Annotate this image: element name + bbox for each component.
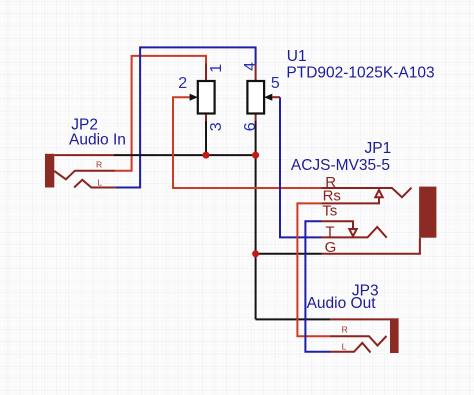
connector JP3 audio-out jack symbol (mirrored) xyxy=(330,318,399,353)
svg-text:Ts: Ts xyxy=(322,203,337,220)
JP3 ring contact R xyxy=(330,336,387,346)
svg-text:R: R xyxy=(96,160,102,170)
wire GND branch to JP1.G xyxy=(256,253,322,255)
resistor body U1B xyxy=(247,81,264,114)
pin 4 stub xyxy=(255,64,257,82)
JP3 sleeve pin line xyxy=(330,318,390,320)
pin 3 stub xyxy=(205,114,207,122)
wire GND bottom to JP3 sleeve xyxy=(256,318,330,320)
wire GND vertical bus down xyxy=(255,155,257,319)
JP2 sleeve pin line xyxy=(54,154,114,156)
JP1 pin G line to body xyxy=(322,238,420,254)
pin 1 stub xyxy=(205,64,207,82)
JP1 pin R line with ring contact xyxy=(322,188,412,198)
wiper arrow pin 2 xyxy=(190,94,198,101)
JP2 ring contact R xyxy=(54,171,115,180)
pin 6 stub xyxy=(255,114,257,122)
wire GND branch: U1 pin 6 down to bus xyxy=(255,121,257,156)
svg-text:L: L xyxy=(342,341,347,351)
svg-text:L: L xyxy=(97,178,102,188)
JP3 tip contact L xyxy=(330,343,371,353)
svg-text:T: T xyxy=(325,223,334,240)
wiper arrow pin 5 xyxy=(264,94,272,101)
JP1 Rs switch arrow (open) xyxy=(375,190,382,197)
wire net JP1.Rs to JP3.R (red) xyxy=(297,203,330,336)
resistor body U1A xyxy=(198,81,215,114)
connector JP2 audio-in jack symbol xyxy=(45,154,115,188)
potentiometer U1B (right, mirrored) xyxy=(247,64,280,122)
wire net GND: JP2 sleeve to U1 pin3/pin6, JP1.G, JP3 sleeve (black) xyxy=(114,154,256,156)
svg-text:ACJS-MV35-5: ACJS-MV35-5 xyxy=(291,157,390,174)
svg-text:5: 5 xyxy=(271,75,280,92)
svg-text:2: 2 xyxy=(178,75,187,92)
wire net OUT_L wiper: U1 pin 5 to JP1.T (blue) xyxy=(280,97,322,237)
svg-text:1: 1 xyxy=(208,64,225,73)
wire net OUT_R wiper: U1 pin 2 to JP1.R (red) xyxy=(173,97,322,188)
JP2 body sleeve block xyxy=(45,154,54,188)
wire net IN_L: JP2.L to U1 pin 4 (blue) xyxy=(115,47,255,187)
JP3 body sleeve block xyxy=(390,318,399,353)
wire GND branch: U1 pin 3 down to bus xyxy=(205,121,207,156)
svg-text:4: 4 xyxy=(242,62,259,71)
JP1 Ts switch arrow (open) xyxy=(349,229,356,236)
pin 5 stub xyxy=(272,96,280,98)
JP1 body sleeve block xyxy=(419,187,436,238)
connector JP1 stereo jack ACJS-MV35-5 xyxy=(322,187,437,254)
potentiometer U1A (left) xyxy=(190,64,215,122)
svg-text:G: G xyxy=(325,239,337,256)
junction node at U1 pin 3 / GND bus xyxy=(203,152,210,159)
svg-text:6: 6 xyxy=(242,122,259,131)
JP1 pin T line with tip contact xyxy=(322,227,387,238)
svg-text:Audio Out: Audio Out xyxy=(307,295,377,312)
junction node at U1 pin 6 / GND bus xyxy=(252,152,259,159)
svg-text:U1: U1 xyxy=(287,48,307,65)
svg-text:JP1: JP1 xyxy=(365,140,392,157)
junction node at GND bus / JP1.G branch xyxy=(252,250,259,257)
svg-text:PTD902-1025K-A103: PTD902-1025K-A103 xyxy=(286,64,434,81)
svg-text:R: R xyxy=(342,325,348,335)
svg-text:3: 3 xyxy=(208,122,225,131)
wire net JP1.Ts to JP3.L (blue) xyxy=(305,221,330,351)
JP1 pin Rs line xyxy=(322,197,380,203)
svg-text:Audio In: Audio In xyxy=(69,131,126,148)
JP2 tip contact L xyxy=(74,180,115,188)
JP1 pin Ts line xyxy=(322,221,354,229)
wire net IN_R: JP2.R to U1 pin 1 (red) xyxy=(115,56,206,171)
